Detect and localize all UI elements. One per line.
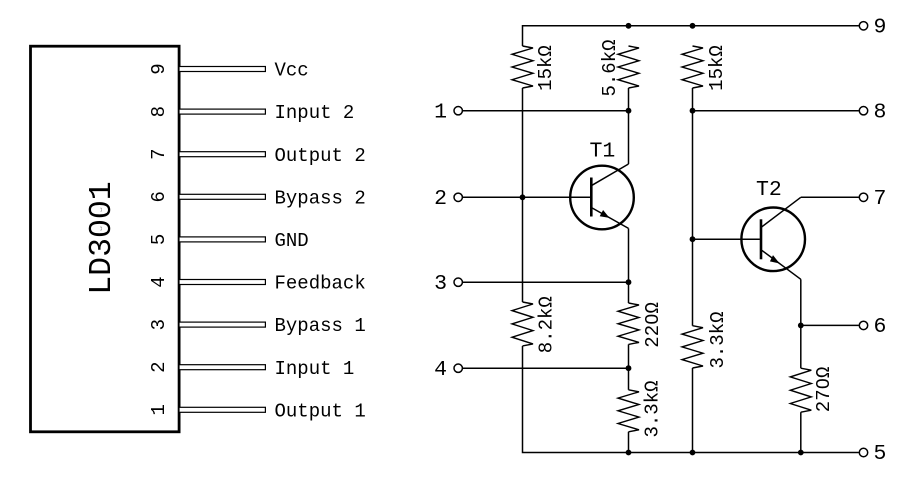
node 7 terminal circle <box>859 193 867 201</box>
svg-text:8.2kΩ: 8.2kΩ <box>536 296 558 353</box>
zero-dot masks for LD3001 <box>96 226 101 231</box>
junction node8 / column3 <box>690 108 696 114</box>
pin 2 lead rectangle <box>179 365 265 370</box>
svg-text:Input 1: Input 1 <box>275 358 355 380</box>
transistor T2 base bar <box>760 219 763 259</box>
wire: node 3 horizontal <box>463 281 629 283</box>
pin 9 lead rectangle <box>179 67 265 72</box>
svg-text:15kΩ: 15kΩ <box>706 45 728 91</box>
junction top rail / R15k column3 <box>690 23 696 29</box>
svg-text:15kΩ: 15kΩ <box>535 45 557 91</box>
svg-text:3: 3 <box>148 319 170 330</box>
resistor R2 5.6k&#937; zigzag <box>618 46 639 88</box>
svg-text:6: 6 <box>148 191 170 202</box>
svg-text:8: 8 <box>148 106 170 117</box>
junction node1 / T1 collector <box>626 108 632 114</box>
svg-text:3: 3 <box>434 272 447 296</box>
svg-text:4: 4 <box>148 276 170 287</box>
resistor R5 220&#937; zigzag <box>618 303 639 344</box>
svg-text:Input 2: Input 2 <box>275 102 355 124</box>
transistor T1 collector diagonal <box>591 164 628 186</box>
resistor R7 3.3k&#937; zigzag <box>682 326 703 368</box>
transistor Q/T1 body circle <box>570 166 634 230</box>
svg-text:Bypass 1: Bypass 1 <box>275 315 366 337</box>
junction bottom rail / column2 <box>626 450 632 456</box>
svg-text:7: 7 <box>874 187 887 211</box>
svg-text:4: 4 <box>434 358 447 382</box>
resistor R6 3.3k&#937; zigzag <box>618 390 639 432</box>
wire: column4 segment R270 to bottom rail <box>800 412 802 452</box>
svg-text:3.3kΩ: 3.3kΩ <box>707 311 729 368</box>
svg-text:220Ω: 220Ω <box>642 302 664 348</box>
wire: T1 emitter vertical to node 3 <box>628 228 630 282</box>
junction top rail / R5.6k column <box>626 23 632 29</box>
transistor T2 collector diagonal <box>761 197 801 227</box>
svg-text:T1: T1 <box>590 140 616 164</box>
wire: column2 segment R220 to node4 to R3.3k <box>628 344 630 389</box>
junction node3 / T1 emitter <box>626 279 632 285</box>
node 4 terminal circle <box>454 364 462 372</box>
node 9 terminal circle <box>859 22 867 30</box>
wire: node 4 horizontal <box>463 367 629 369</box>
node 1 terminal circle <box>454 107 462 115</box>
svg-text:5.6kΩ: 5.6kΩ <box>599 39 621 96</box>
svg-text:Output 1: Output 1 <box>275 400 366 422</box>
pin 5 lead rectangle <box>179 237 265 242</box>
resistor R3 15k&#937; zigzag <box>682 46 703 88</box>
transistor T2 emitter arrow head <box>770 255 780 263</box>
svg-text:Vcc: Vcc <box>275 60 309 82</box>
wire: column2 segment R5.6k to node1 <box>628 88 630 111</box>
pin 7 lead rectangle <box>179 152 265 157</box>
wire: T2 base horizontal from column3 <box>693 238 760 240</box>
resistor R1 15k&#937; zigzag <box>512 46 533 88</box>
wire: top rail (node 9) <box>523 26 859 46</box>
svg-text:2: 2 <box>434 187 447 211</box>
junction node2 / column1 <box>520 194 526 200</box>
svg-text:2: 2 <box>148 361 170 372</box>
transistor T1 emitter diagonal <box>591 208 628 229</box>
svg-text:270Ω: 270Ω <box>813 367 835 413</box>
svg-text:1: 1 <box>434 100 447 124</box>
wire: node 8 horizontal <box>693 110 859 112</box>
pin 6 lead rectangle <box>179 194 265 199</box>
transistor Q/T2 body circle <box>741 208 805 272</box>
junction node4 / column2 <box>626 365 632 371</box>
svg-text:Output 2: Output 2 <box>275 145 366 167</box>
wire: T1 collector vertical to node 1 <box>628 111 630 164</box>
node 6 terminal circle <box>859 321 867 329</box>
svg-text:LD3001: LD3001 <box>85 181 120 294</box>
svg-text:8: 8 <box>874 100 887 124</box>
zero-dot masks for 220 ohm and 270 ohm labels <box>649 318 653 322</box>
IC U1 LD3001 package body <box>31 46 180 432</box>
pin 1 lead rectangle <box>179 407 265 412</box>
transistor T1 base bar <box>590 178 593 217</box>
svg-text:5: 5 <box>148 234 170 245</box>
node 3 terminal circle <box>454 278 462 286</box>
node 8 terminal circle <box>859 107 867 115</box>
node 2 terminal circle <box>454 193 462 201</box>
wire: column4 segment T2 emitter to node6 <box>800 279 802 325</box>
svg-text:5: 5 <box>874 442 887 466</box>
svg-text:6: 6 <box>874 315 887 339</box>
svg-text:Feedback: Feedback <box>275 273 366 295</box>
pin 3 lead rectangle <box>179 322 265 327</box>
junction bottom rail / column3 <box>690 450 696 456</box>
svg-text:3.3kΩ: 3.3kΩ <box>642 380 664 437</box>
svg-text:1: 1 <box>148 404 170 415</box>
transistor T2 emitter diagonal <box>762 250 801 279</box>
wire: node 1 horizontal <box>463 110 629 112</box>
pin 8 lead rectangle <box>179 109 265 114</box>
junction node6 / T2 emitter <box>798 323 804 329</box>
wire: column2 segment node3 to R220 <box>628 282 630 303</box>
wire: column2 segment R3.3k to bottom rail <box>628 432 630 453</box>
wire: column3 segment R3.3k to bottom rail <box>692 368 694 453</box>
wire: column4 segment node6 to R270 <box>800 325 802 368</box>
wire: column1 middle segment (between R 15k and R 8.2k) <box>522 88 524 302</box>
junction bottom rail / column4 <box>798 450 804 456</box>
wire: node 6 horizontal <box>801 324 859 326</box>
svg-text:9: 9 <box>874 15 887 39</box>
svg-text:Bypass 2: Bypass 2 <box>275 187 366 209</box>
wire: node 7 horizontal (T2 collector) <box>801 196 859 198</box>
transistor T1 emitter arrow head <box>600 210 610 218</box>
junction T2 base / column3 <box>690 236 696 242</box>
wire: column3 segment R15k to T2 base node to R3.3k <box>692 88 694 326</box>
svg-text:T2: T2 <box>756 178 782 202</box>
wire: bottom rail (node 5) <box>523 346 859 453</box>
resistor R8 270&#937; zigzag <box>790 368 811 412</box>
node 5 terminal circle <box>859 448 867 456</box>
svg-text:9: 9 <box>148 63 170 74</box>
svg-text:7: 7 <box>148 148 170 159</box>
wire: node 2 horizontal (T1 base) <box>463 196 590 198</box>
svg-text:GND: GND <box>275 230 309 252</box>
pin 4 lead rectangle <box>179 280 265 285</box>
resistor R4 8.2k&#937; zigzag <box>512 302 533 346</box>
